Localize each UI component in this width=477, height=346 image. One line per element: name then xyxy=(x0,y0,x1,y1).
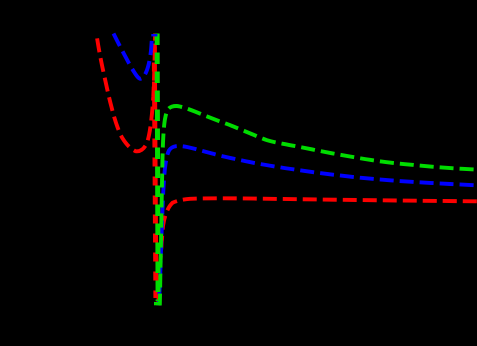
red curve left branch xyxy=(96,34,155,152)
blue curve left branch xyxy=(114,34,153,79)
blue curve right branch xyxy=(159,146,477,305)
blue curve clipped top tip xyxy=(151,34,157,36)
blue curve clipped bottom foot xyxy=(159,303,162,306)
green curve clipped bottom foot xyxy=(154,302,160,305)
red curve right branch xyxy=(158,198,477,305)
red curve pole connector xyxy=(154,34,156,299)
green curve pole connector xyxy=(157,34,158,302)
green curve right branch xyxy=(160,106,477,306)
